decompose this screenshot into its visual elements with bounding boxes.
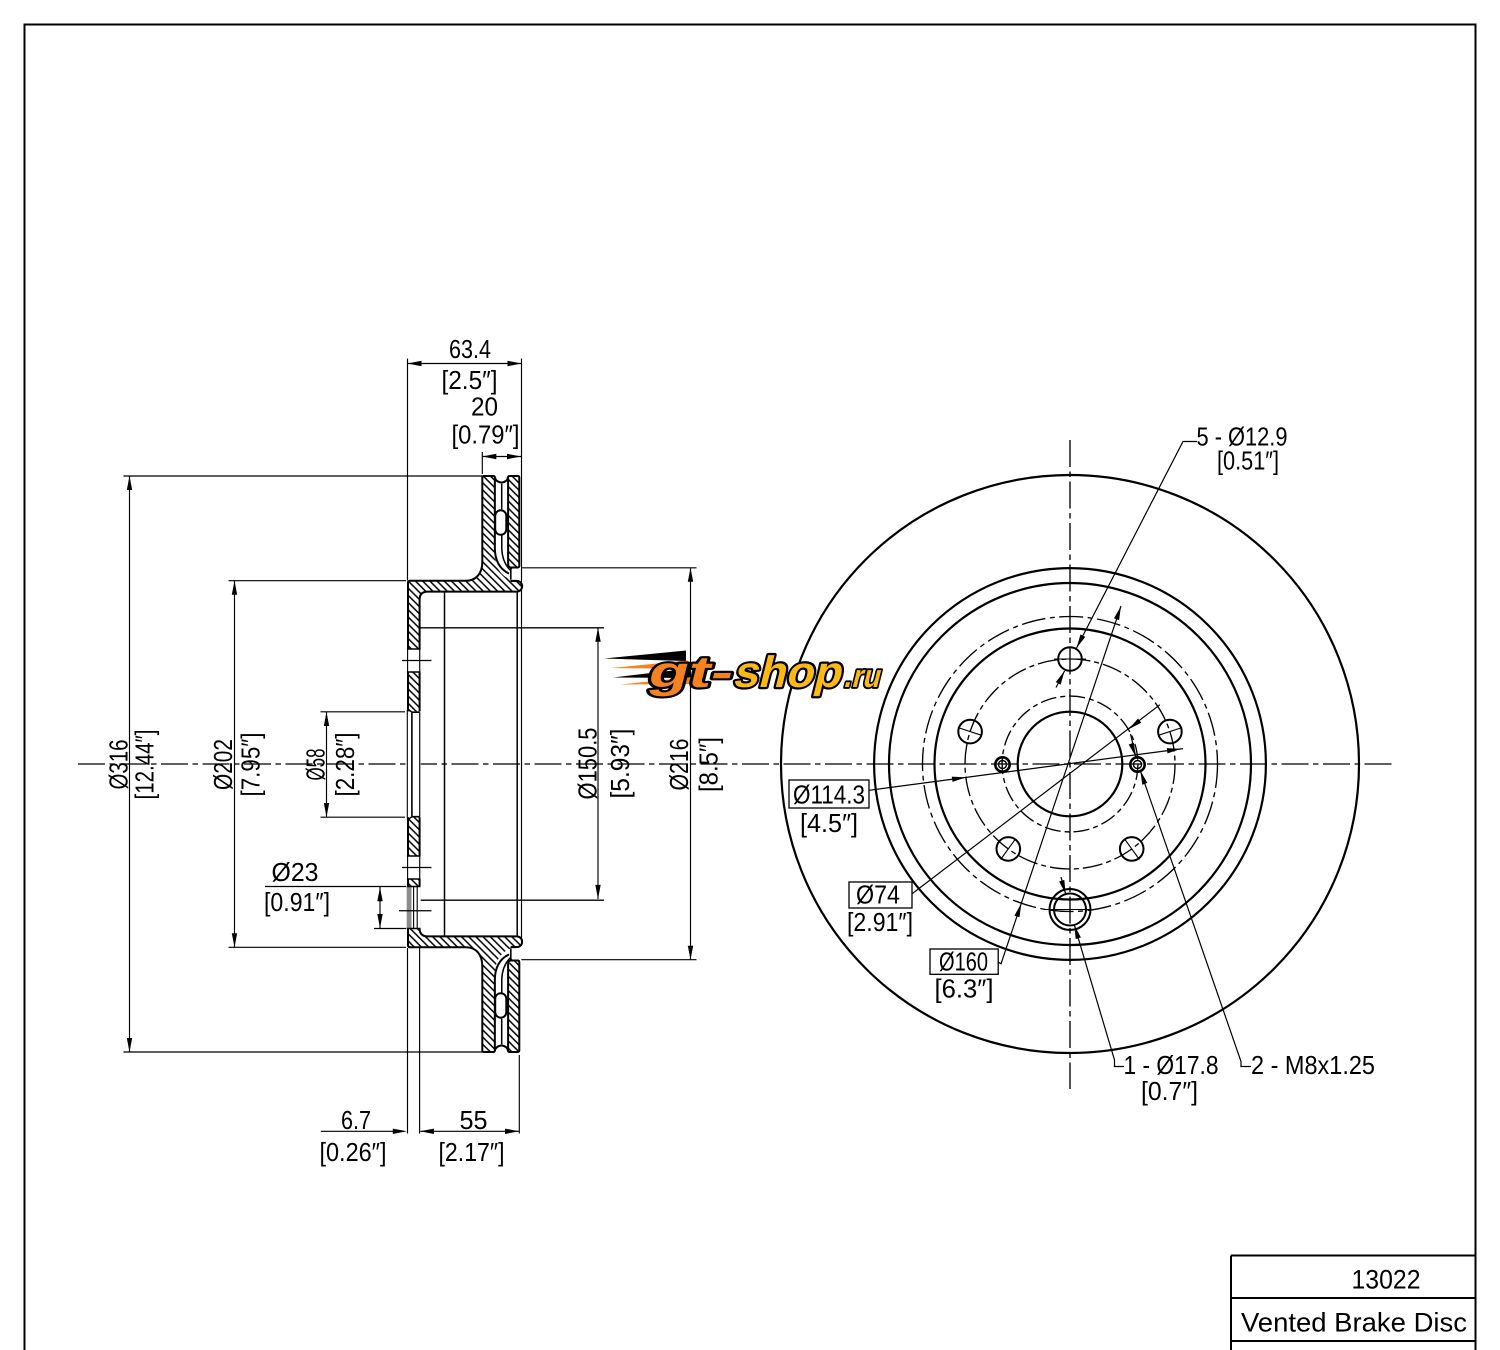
svg-text:[2.5″]: [2.5″] <box>442 365 498 395</box>
svg-text:[0.51″]: [0.51″] <box>1217 446 1279 476</box>
center bore O58 <box>1018 712 1123 817</box>
svg-text:63.4: 63.4 <box>449 334 491 364</box>
svg-text:Ø216: Ø216 <box>664 739 694 791</box>
leader O160 <box>998 606 1121 964</box>
svg-text:Ø160: Ø160 <box>939 947 988 977</box>
dim O202 hat diameter <box>234 581 236 948</box>
dim 63.4 overall width <box>408 363 522 365</box>
dim 55 hat depth <box>421 1130 520 1132</box>
dim 6.7 flange thickness <box>321 1130 404 1132</box>
circle O74 dash-dot <box>1002 696 1138 832</box>
leader 1-O17.8 <box>1074 925 1124 1067</box>
svg-text:[2.17″]: [2.17″] <box>439 1137 505 1167</box>
svg-text:[0.7″]: [0.7″] <box>1141 1076 1198 1106</box>
svg-text:[0.26″]: [0.26″] <box>320 1137 387 1167</box>
circle O202 <box>889 583 1251 945</box>
svg-text:20: 20 <box>471 392 498 422</box>
svg-text:[6.3″]: [6.3″] <box>935 974 994 1004</box>
svg-text:[2.91″]: [2.91″] <box>847 907 913 937</box>
stud hole O12.9 at 306 deg <box>1120 837 1144 861</box>
dim O23 parking hole <box>379 887 381 929</box>
svg-text:[0.91″]: [0.91″] <box>264 887 330 917</box>
svg-text:Ø58: Ø58 <box>301 749 331 781</box>
svg-text:[12.44″]: [12.44″] <box>130 730 160 800</box>
vent pillar (top) <box>495 510 506 535</box>
vent pillar (bottom) <box>495 993 506 1018</box>
center bore window <box>407 711 421 817</box>
section body (hatched) of vented disc <box>408 476 522 1052</box>
svg-text:Ø114.3: Ø114.3 <box>793 780 865 810</box>
circle O150.5 <box>935 629 1206 900</box>
svg-text:[4.5″]: [4.5″] <box>800 808 858 838</box>
horizontal centerline <box>78 763 1392 765</box>
drum inner surface edges <box>421 628 605 900</box>
svg-text:[5.93″]: [5.93″] <box>605 729 635 799</box>
leader 2-M8x1.25 <box>1140 771 1251 1067</box>
dim O216 <box>690 568 692 960</box>
svg-text:Ø23: Ø23 <box>272 857 319 887</box>
svg-text:gt-: gt- <box>644 649 740 697</box>
dim O316 outer diameter <box>129 476 131 1052</box>
dim 20 ring thickness <box>482 456 521 458</box>
svg-text:Ø150.5: Ø150.5 <box>573 728 603 800</box>
leader O74 <box>912 705 1160 894</box>
svg-text:55: 55 <box>460 1105 488 1135</box>
dim O58 center bore <box>326 712 328 817</box>
vertical centerline front view <box>1069 440 1071 1089</box>
gt-shop.ru logo <box>604 649 889 697</box>
bolt circle O160 dash-dot <box>923 617 1218 912</box>
bolt circle O114.3 dash-dot <box>965 659 1175 869</box>
stud hole O12.9 at 162 deg <box>958 720 982 744</box>
leader O114.3 <box>869 749 1183 791</box>
svg-text:Vented Brake Disc: Vented Brake Disc <box>1241 1308 1467 1338</box>
svg-text:Ø202: Ø202 <box>208 739 238 790</box>
svg-text:[8.5″]: [8.5″] <box>694 737 724 792</box>
stud hole O12.9 at 90 deg <box>1058 647 1082 671</box>
svg-text:[0.79″]: [0.79″] <box>452 419 520 449</box>
vent channel (top) <box>495 478 521 580</box>
svg-text:shop: shop <box>730 649 850 697</box>
leader 5-O12.9 <box>1077 442 1198 649</box>
stud hole O12.9 at 234 deg <box>997 837 1021 861</box>
front view outer circle O316 <box>781 475 1359 1053</box>
svg-text:13022: 13022 <box>1352 1265 1421 1295</box>
svg-text:[7.95″]: [7.95″] <box>236 733 266 797</box>
M8 service hole left <box>995 757 1009 771</box>
title block <box>1231 1256 1476 1350</box>
svg-text:[2.28″]: [2.28″] <box>330 733 360 797</box>
circle O216 <box>874 568 1266 960</box>
svg-text:2 - M8x1.25: 2 - M8x1.25 <box>1251 1050 1375 1080</box>
svg-text:Ø74: Ø74 <box>856 880 900 910</box>
parking-hole window (O23/O17.8) <box>407 887 421 929</box>
parking adjuster hole O17.8/O23 <box>1050 889 1091 930</box>
stud hole (bottom) in flange <box>407 856 421 879</box>
dim O150.5 drum inner diameter <box>597 628 599 899</box>
stud hole O12.9 at 18 deg <box>1158 720 1182 744</box>
svg-text:6.7: 6.7 <box>341 1105 371 1135</box>
M8 service hole right <box>1130 757 1144 771</box>
stud hole (top) in flange <box>407 649 421 672</box>
vent channel (bottom) <box>495 948 521 1050</box>
